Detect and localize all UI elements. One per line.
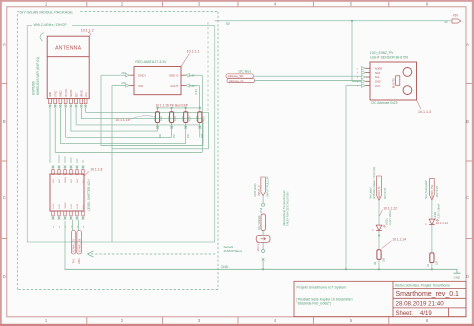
svg-text:VIN: VIN bbox=[138, 84, 143, 88]
svg-text:UTXD: UTXD bbox=[55, 90, 57, 97]
level shifter top pin 2 bbox=[58, 166, 61, 169]
svg-text:PU3: PU3 bbox=[181, 115, 185, 121]
svg-text:Adresse_SD: Adresse_SD bbox=[228, 74, 243, 78]
svg-text:10.1.1.2: 10.1.1.2 bbox=[81, 28, 94, 32]
svg-text:Stefan Schnitzer, Projekt: Sma: Stefan Schnitzer, Projekt: Smarthome bbox=[395, 284, 450, 288]
svg-text:AOUT: AOUT bbox=[170, 84, 178, 88]
LED1 diode symbol bbox=[376, 225, 382, 230]
svg-text:IO16 (R10): IO16 (R10) bbox=[253, 184, 257, 197]
sensor VCC from 5V bbox=[352, 80, 361, 82]
wire bundle ESP to resistors/level shifter bbox=[85, 108, 87, 113]
level shifter top pin 5 bbox=[76, 166, 79, 169]
svg-text:GND: GND bbox=[50, 92, 52, 97]
svg-text:IO3: IO3 bbox=[201, 133, 204, 138]
svg-text:D: D bbox=[3, 274, 6, 279]
svg-text:LDD_E0BZ_PV: LDD_E0BZ_PV bbox=[370, 51, 394, 55]
level shifter top pin 1 bbox=[52, 166, 55, 169]
LED2 output branch: net label GPIO bbox=[430, 179, 435, 200]
resistor R3 pull-up bbox=[185, 107, 187, 109]
svg-text:GND: GND bbox=[221, 265, 229, 269]
svg-text:RST: RST bbox=[76, 92, 78, 97]
svg-text:C: C bbox=[3, 195, 6, 200]
level shifter top pin 4 bbox=[70, 166, 73, 169]
svg-text:C: C bbox=[466, 195, 469, 200]
svg-text:SCL: SCL bbox=[375, 75, 381, 79]
svg-text:VCC: VCC bbox=[375, 84, 381, 88]
voltage regulator U2 AMS1117-3.3V bbox=[134, 67, 181, 95]
vertical wire to GND rail bbox=[111, 149, 113, 242]
level shifter bottom pin 5 bbox=[76, 211, 78, 216]
reed switch S1 bbox=[261, 214, 265, 231]
svg-text:A0: A0 bbox=[444, 20, 448, 24]
sensor GND wire down to rail bbox=[346, 85, 361, 87]
svg-text:GND2: GND2 bbox=[65, 202, 67, 209]
svg-text:10.1.1.3: 10.1.1.3 bbox=[418, 110, 431, 114]
svg-text:Adresse_CL: Adresse_CL bbox=[229, 79, 244, 83]
svg-text:(235Ohm Außen / 47(47)-R): (235Ohm Außen / 47(47)-R) bbox=[372, 167, 376, 199]
svg-text:LED1: LED1 bbox=[385, 218, 389, 225]
svg-text:ANTENNA: ANTENNA bbox=[55, 46, 82, 52]
svg-text:LED2: LED2 bbox=[433, 211, 437, 218]
svg-text:GND2: GND2 bbox=[61, 90, 63, 97]
wire AOUT to 3.3V bbox=[189, 85, 199, 87]
svg-text:LEVEL SHIFTER 4CH: LEVEL SHIFTER 4CH bbox=[87, 179, 91, 211]
wifi module group box bbox=[27, 26, 215, 242]
wire label to LED bbox=[378, 201, 380, 225]
ESP8266 module U1 (ESP-01) bbox=[47, 36, 89, 98]
svg-text:SERIAL_TX: SERIAL_TX bbox=[73, 239, 76, 253]
svg-text:10.1.1.15: 10.1.1.15 bbox=[115, 118, 129, 122]
svg-text:180: 180 bbox=[382, 257, 385, 262]
svg-text:B: B bbox=[466, 119, 469, 124]
svg-text:PU1: PU1 bbox=[153, 115, 157, 121]
svg-text:ADDR: ADDR bbox=[375, 67, 382, 71]
svg-text:Wifi 2,4GHz / DHCP: Wifi 2,4GHz / DHCP bbox=[34, 23, 68, 27]
svg-text:10.1.1.12: 10.1.1.12 bbox=[383, 206, 397, 210]
I2C SDA wire bbox=[254, 75, 362, 77]
svg-text:GND1: GND1 bbox=[65, 176, 67, 183]
svg-text:URXD: URXD bbox=[82, 90, 84, 97]
svg-text:Serial1: Serial1 bbox=[224, 245, 234, 249]
svg-text:10.1.1.14: 10.1.1.14 bbox=[392, 238, 406, 242]
svg-text:TRUE=TÜR GESCHLOSSEN: TRUE=TÜR GESCHLOSSEN bbox=[286, 191, 290, 226]
level shifter bottom pin 1 bbox=[52, 211, 54, 216]
svg-text:INPUT PULLUP: INPUT PULLUP bbox=[265, 176, 269, 196]
level shifter top pin 6 bbox=[82, 166, 85, 169]
svg-text:CH_PD: CH_PD bbox=[66, 89, 68, 97]
DIY WLAN module package dashed boundary bbox=[17, 11, 218, 13]
svg-text:Überwachung Tür geschlossen: Überwachung Tür geschlossen bbox=[282, 190, 286, 226]
LED2 diode symbol bbox=[429, 219, 435, 224]
svg-text:A: A bbox=[466, 42, 469, 47]
svg-text:OUTPUT: OUTPUT bbox=[435, 185, 439, 197]
level shifter top pin 3 bbox=[64, 166, 67, 169]
frame: row ticks left/right bbox=[2, 83, 7, 85]
svg-text:HV: HV bbox=[83, 205, 85, 209]
wire resistor to GND rail bbox=[431, 263, 433, 270]
svg-text:GND: GND bbox=[454, 276, 462, 280]
svg-text:IO16: IO16 bbox=[260, 207, 263, 213]
regulator pins bbox=[129, 74, 134, 76]
svg-text:4,7k: 4,7k bbox=[201, 115, 205, 121]
svg-text:4,7k: 4,7k bbox=[159, 115, 163, 121]
level shifter bottom pin 2 bbox=[58, 211, 60, 216]
svg-text:VCC: VCC bbox=[86, 92, 88, 97]
svg-text:GPIO5_TW: GPIO5_TW bbox=[431, 184, 434, 198]
wire GND O down bbox=[189, 74, 202, 76]
svg-text:Projekt Smarthome IoT System: Projekt Smarthome IoT System bbox=[297, 285, 347, 289]
svg-text:OUTPUT: OUTPUT bbox=[383, 187, 387, 199]
svg-text:HR1: HR1 bbox=[77, 258, 81, 264]
svg-text:4/19: 4/19 bbox=[420, 311, 432, 317]
svg-text:GND I: GND I bbox=[138, 73, 146, 77]
leader arc from wifi label bbox=[40, 33, 44, 42]
wire resistor to GND rail bbox=[378, 259, 380, 269]
svg-text:10.1.1.13: 10.1.1.13 bbox=[436, 221, 448, 225]
level shifter bottom pin 3 bbox=[64, 211, 66, 216]
wire label to LED bbox=[431, 200, 433, 219]
svg-text:A: A bbox=[3, 42, 6, 47]
svg-text:SERIAL_RX: SERIAL_RX bbox=[78, 238, 81, 252]
door contact input branch bbox=[261, 177, 265, 196]
svg-text:*led_blau*: *led_blau* bbox=[368, 187, 372, 199]
svg-text:IR2_Schrank: IR2_Schrank bbox=[258, 215, 261, 230]
svg-text:3,3V / 18mA: 3,3V / 18mA bbox=[437, 204, 441, 219]
svg-text:DIY WLAN MODUL PACKAGE: DIY WLAN MODUL PACKAGE bbox=[20, 9, 74, 14]
wires down to level shifter pins bbox=[58, 155, 60, 163]
inner dashed boundary bbox=[207, 22, 209, 111]
resistor R1 pull-up bbox=[156, 107, 158, 109]
svg-text:GND O: GND O bbox=[169, 73, 179, 77]
svg-text:10.1.1.16 Pin Bus ESP: 10.1.1.16 Pin Bus ESP bbox=[156, 103, 188, 107]
svg-text:Smarthome_rev_0.1: Smarthome_rev_0.1 bbox=[396, 291, 460, 298]
resistor top rail 3.3V bbox=[158, 107, 200, 109]
svg-text:GPIO4_BL: GPIO4_BL bbox=[378, 185, 381, 198]
svg-text:115200 Baud: 115200 Baud bbox=[224, 249, 242, 253]
wire ESP pin1 down to level shifter bbox=[49, 108, 51, 163]
svg-text:x5V: x5V bbox=[121, 81, 126, 85]
svg-text:GPIO2: GPIO2 bbox=[71, 89, 73, 97]
frame: column ticks top/bottom bbox=[86, 2, 88, 7]
wire LED to resistor bbox=[431, 225, 433, 253]
svg-text:BH1750: BH1750 bbox=[392, 78, 396, 89]
svg-text:REG-AMS1117-3.3V: REG-AMS1117-3.3V bbox=[135, 60, 167, 64]
svg-text:D: D bbox=[466, 274, 469, 279]
bundle corner drops bbox=[208, 112, 210, 148]
svg-text:GND: GND bbox=[375, 80, 381, 84]
level shifter bottom pin 6 bbox=[82, 211, 84, 216]
svg-text:I2C Adresse 0x23: I2C Adresse 0x23 bbox=[371, 101, 397, 105]
svg-text:IO2: IO2 bbox=[187, 133, 190, 138]
svg-text:10.1.1.8: 10.1.1.8 bbox=[90, 168, 102, 172]
level shifter GND pin wire down to rail bbox=[64, 221, 66, 269]
svg-text:3,3V: 3,3V bbox=[194, 89, 198, 95]
svg-text:x3V: x3V bbox=[190, 74, 195, 78]
resistor R6 bbox=[377, 250, 381, 260]
svg-text:x5V: x5V bbox=[121, 71, 126, 75]
svg-text:IO0: IO0 bbox=[159, 133, 162, 138]
I2C SCL wire bbox=[255, 80, 362, 82]
title block bbox=[294, 281, 466, 316]
svg-text:I2C Bus: I2C Bus bbox=[239, 70, 252, 74]
level shifter module U3 bbox=[50, 174, 84, 211]
svg-text:10.1.1.1: 10.1.1.1 bbox=[187, 50, 200, 54]
svg-text:B: B bbox=[3, 119, 6, 124]
LED1 output branch: net label GPIO bbox=[377, 176, 382, 200]
resistor R7 bbox=[430, 253, 434, 263]
svg-text:WIRELESS WIFI (ESP-01): WIRELESS WIFI (ESP-01) bbox=[36, 57, 40, 95]
svg-text:x3V: x3V bbox=[190, 84, 195, 88]
svg-text:4,7k: 4,7k bbox=[187, 115, 191, 121]
svg-text:*led_Turmstube*: *led_Turmstube* bbox=[424, 180, 428, 199]
svg-text:10.1.1.4: 10.1.1.4 bbox=[256, 241, 260, 251]
svg-text:PU2: PU2 bbox=[167, 115, 171, 121]
svg-text:"Stücklide RIO_E0BZ"]: "Stücklide RIO_E0BZ"] bbox=[297, 302, 332, 306]
frame: outer pink page-edge strips bbox=[0, 0, 474, 2]
GND rail bbox=[65, 268, 458, 270]
svg-text:IO1: IO1 bbox=[173, 133, 176, 138]
svg-text:220: 220 bbox=[435, 260, 438, 265]
net stub arrows right of regulator bbox=[186, 74, 190, 77]
resistor R4 pull-up bbox=[199, 107, 201, 109]
svg-text:3,3V / 18mA: 3,3V / 18mA bbox=[388, 210, 392, 225]
svg-text:+5V: +5V bbox=[453, 13, 460, 17]
dashed serial arrow annotation bbox=[91, 253, 217, 255]
svg-text:PU4: PU4 bbox=[195, 115, 199, 121]
wire LED to resistor bbox=[378, 231, 380, 250]
serial net labels below level shifter bbox=[71, 231, 76, 255]
resistor R2 pull-up bbox=[171, 107, 173, 109]
svg-text:SDA: SDA bbox=[375, 71, 381, 75]
svg-text:TA1: TA1 bbox=[72, 258, 76, 263]
level shifter bottom pin 4 bbox=[70, 211, 72, 216]
svg-text:4,7k: 4,7k bbox=[173, 115, 177, 121]
svg-text:Sheet:: Sheet: bbox=[396, 311, 414, 317]
svg-text:INPUT_P: INPUT_P bbox=[258, 185, 261, 196]
wires from regulator left pins down bbox=[101, 74, 126, 76]
svg-text:28.08.2019 21:40: 28.08.2019 21:40 bbox=[396, 301, 445, 308]
net stub arrows left of regulator bbox=[126, 74, 130, 77]
ground symbol bbox=[456, 269, 458, 273]
5V supply rail bbox=[215, 20, 452, 22]
+5V xref arrow bbox=[452, 19, 461, 23]
svg-text:LIGHT SENSOR BH1750: LIGHT SENSOR BH1750 bbox=[370, 55, 408, 59]
